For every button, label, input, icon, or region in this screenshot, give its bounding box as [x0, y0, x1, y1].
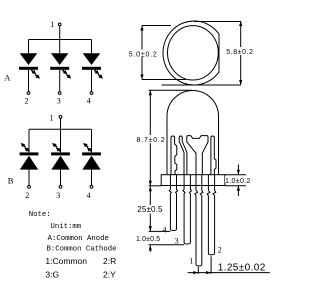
svg-text:1: 1 — [189, 256, 193, 265]
svg-text:4: 4 — [163, 225, 167, 234]
svg-text:3: 3 — [57, 96, 61, 105]
svg-text:1.25±0.02: 1.25±0.02 — [218, 262, 266, 273]
svg-text:A:Common Anode: A:Common Anode — [48, 235, 109, 243]
svg-text:3: 3 — [175, 237, 179, 246]
svg-text:2:R: 2:R — [103, 256, 116, 266]
svg-text:A: A — [4, 73, 11, 83]
svg-text:4: 4 — [87, 191, 91, 200]
svg-text:B: B — [8, 176, 14, 186]
svg-text:1.0±0.5: 1.0±0.5 — [136, 236, 160, 243]
svg-text:B:Common Cathode: B:Common Cathode — [47, 246, 117, 254]
svg-text:2: 2 — [25, 96, 29, 105]
svg-text:Note:: Note: — [29, 211, 51, 219]
svg-text:3:G: 3:G — [45, 269, 59, 279]
svg-text:1: 1 — [50, 20, 54, 29]
svg-text:4: 4 — [87, 96, 91, 105]
svg-text:1: 1 — [50, 113, 54, 122]
svg-text:1.0±0.2: 1.0±0.2 — [225, 178, 251, 185]
svg-text:5.8±0.2: 5.8±0.2 — [226, 49, 253, 56]
svg-text:2:Y: 2:Y — [103, 269, 116, 279]
svg-text:8.7±0.2: 8.7±0.2 — [137, 137, 166, 144]
svg-text:Unit:mm: Unit:mm — [51, 223, 82, 231]
svg-text:1:Common: 1:Common — [45, 256, 87, 266]
svg-text:2: 2 — [218, 245, 222, 254]
svg-text:25±0.5: 25±0.5 — [137, 205, 163, 214]
svg-text:3: 3 — [56, 191, 60, 200]
svg-text:2: 2 — [25, 191, 29, 200]
svg-text:5.0±0.2: 5.0±0.2 — [129, 52, 158, 59]
